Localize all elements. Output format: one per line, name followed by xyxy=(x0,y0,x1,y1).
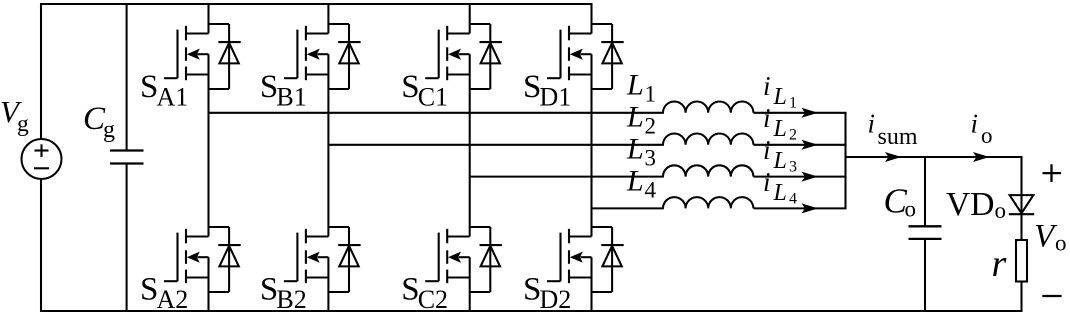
wire leg A drain from top rail xyxy=(207,4,209,34)
svg-text:L: L xyxy=(626,101,644,134)
svg-text:L: L xyxy=(626,133,644,166)
wire top rail xyxy=(40,3,593,5)
arrow current iL2 xyxy=(802,140,819,150)
wire phase D to inductor L4 xyxy=(592,207,664,209)
inductor L2 xyxy=(663,134,753,145)
capacitor Cg xyxy=(110,3,144,312)
svg-text:4: 4 xyxy=(789,191,797,208)
svg-text:i: i xyxy=(763,103,771,133)
svg-text:VD: VD xyxy=(946,186,994,223)
svg-text:B1: B1 xyxy=(276,83,306,112)
diode D_A1 (body diode of S_A1) xyxy=(209,24,241,89)
svg-text:1: 1 xyxy=(645,81,657,106)
svg-text:L: L xyxy=(626,165,644,198)
wire leg D mid vertical (phase node) xyxy=(590,54,592,236)
inductor L1 xyxy=(663,102,753,113)
wire right output branch xyxy=(1020,157,1022,240)
arrow isum xyxy=(885,152,902,162)
wire left rail lower xyxy=(40,179,42,313)
svg-text:2: 2 xyxy=(789,127,797,144)
label plus output xyxy=(1043,164,1062,182)
arrow io xyxy=(973,152,990,162)
resistor r xyxy=(1016,240,1027,282)
svg-text:4: 4 xyxy=(645,177,657,202)
wire leg C to bottom rail xyxy=(469,257,471,311)
arrow current iL1 xyxy=(802,108,819,118)
arrow current iL4 xyxy=(802,203,819,213)
svg-text:C1: C1 xyxy=(418,83,448,112)
label minus output xyxy=(1042,295,1061,297)
svg-text:A2: A2 xyxy=(157,285,189,314)
svg-text:o: o xyxy=(905,197,917,222)
wire L1 to summing node xyxy=(754,112,847,114)
svg-text:i: i xyxy=(763,167,771,197)
transistor S_C1 (MOSFET) xyxy=(425,26,470,80)
wire leg B mid vertical (phase node) xyxy=(327,54,329,236)
svg-text:C2: C2 xyxy=(418,285,448,314)
wire leg B drain from top rail xyxy=(327,4,329,34)
wire bottom rail xyxy=(40,310,1023,312)
svg-text:L: L xyxy=(773,148,787,174)
svg-text:B2: B2 xyxy=(276,285,306,314)
svg-text:D1: D1 xyxy=(540,83,572,112)
wire resistor to bottom rail xyxy=(1020,282,1022,313)
diode D_C1 (body diode of S_C1) xyxy=(470,24,502,89)
transistor S_D1 (MOSFET) xyxy=(547,26,592,80)
arrow current iL3 xyxy=(802,172,819,182)
transistor S_A1 (MOSFET) xyxy=(164,26,209,80)
diode VDo xyxy=(1009,195,1034,214)
wire leg C drain from top rail xyxy=(469,4,471,34)
diode D_C2 (body diode of S_C2) xyxy=(470,227,502,292)
diode D_B2 (body diode of S_B2) xyxy=(328,227,360,292)
node summing bus xyxy=(844,113,846,209)
wire leg D to bottom rail xyxy=(590,257,592,311)
transistor S_B2 (MOSFET) xyxy=(284,229,329,283)
wire leg A mid vertical (phase node) xyxy=(207,54,209,236)
wire phase A to inductor L1 xyxy=(209,112,664,114)
svg-text:L: L xyxy=(773,180,787,206)
svg-text:L: L xyxy=(773,84,787,110)
svg-text:r: r xyxy=(992,243,1007,285)
wire L3 to summing node xyxy=(754,176,847,178)
diode D_D2 (body diode of S_D2) xyxy=(592,227,624,292)
svg-text:g: g xyxy=(17,111,29,137)
svg-text:o: o xyxy=(981,123,993,148)
wire phase C to inductor L3 xyxy=(470,176,664,178)
wire phase B to inductor L2 xyxy=(328,144,663,146)
transistor S_C2 (MOSFET) xyxy=(425,229,470,283)
inductor L3 xyxy=(663,165,753,176)
svg-text:sum: sum xyxy=(878,124,918,150)
wire leg C mid vertical (phase node) xyxy=(469,54,471,236)
wire leg D drain from top rail xyxy=(590,4,592,34)
wire L4 to summing node xyxy=(754,207,847,209)
svg-text:o: o xyxy=(995,198,1007,223)
svg-text:g: g xyxy=(103,117,115,143)
svg-text:3: 3 xyxy=(789,159,797,176)
svg-text:L: L xyxy=(773,116,787,142)
svg-text:2: 2 xyxy=(645,113,657,138)
svg-text:A1: A1 xyxy=(157,83,189,112)
wire left rail upper xyxy=(40,3,42,140)
capacitor Co xyxy=(909,157,942,312)
diode D_A2 (body diode of S_A2) xyxy=(209,227,241,292)
svg-text:3: 3 xyxy=(645,145,657,170)
wire L2 to summing node xyxy=(754,144,847,146)
svg-text:i: i xyxy=(763,71,771,101)
transistor S_D2 (MOSFET) xyxy=(547,229,592,283)
svg-text:o: o xyxy=(1055,231,1067,256)
svg-text:i: i xyxy=(763,135,771,165)
svg-text:D2: D2 xyxy=(540,285,572,314)
wire leg A to bottom rail xyxy=(207,257,209,311)
diode D_D1 (body diode of S_D1) xyxy=(592,24,624,89)
svg-text:i: i xyxy=(868,109,876,139)
wire leg B to bottom rail xyxy=(327,257,329,311)
svg-text:i: i xyxy=(971,109,979,139)
transistor S_A2 (MOSFET) xyxy=(164,229,209,283)
diode D_B1 (body diode of S_B1) xyxy=(328,24,360,89)
voltage source Vg xyxy=(22,139,62,179)
inductor L4 xyxy=(663,197,753,208)
transistor S_B1 (MOSFET) xyxy=(284,26,329,80)
svg-text:1: 1 xyxy=(789,95,797,112)
wire output isum xyxy=(846,156,1023,158)
svg-text:L: L xyxy=(626,69,644,102)
